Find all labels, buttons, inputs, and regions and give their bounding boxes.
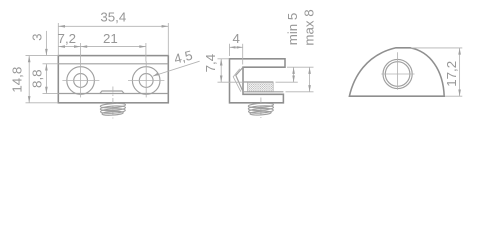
- svg-text:min 5: min 5: [285, 13, 300, 46]
- dim 8,8 line: [45, 64, 47, 94]
- dim 35,4 extension lines: [57, 23, 59, 56]
- dim 4 extension lines: [229, 44, 231, 56]
- dim 35,4 line: [58, 25, 168, 27]
- svg-text:8,8: 8,8: [29, 69, 44, 88]
- screw threads: [100, 103, 125, 116]
- hole 2 outer circle: [132, 67, 160, 95]
- svg-text:7,2: 7,2: [58, 31, 77, 46]
- C-body outline: [230, 59, 286, 103]
- inner bottom step line: [58, 93, 168, 95]
- rubber pad dotted: [248, 82, 274, 92]
- screw axis centerline: [112, 87, 114, 119]
- hole 1 outer circle: [67, 67, 95, 95]
- svg-text:3: 3: [30, 33, 45, 40]
- svg-text:35,4: 35,4: [100, 9, 126, 24]
- hole 2 crosshair: [128, 80, 164, 82]
- dim min5 line: [293, 67, 295, 82]
- screw axis centerline: [260, 98, 262, 119]
- dim 14,8 line: [28, 56, 30, 103]
- hole 2 inner circle: [139, 74, 153, 88]
- right extension lines: [287, 66, 314, 68]
- dim 4,5 leader: [153, 61, 200, 76]
- dim 17,2 line: [459, 48, 461, 96]
- dome outline: [349, 48, 444, 96]
- pad trapezoid front: [100, 91, 124, 94]
- dim 7,4 line: [220, 59, 222, 82]
- left side extension lines: [26, 55, 59, 57]
- dim max8 line: [309, 67, 311, 92]
- inner top step line: [58, 63, 168, 65]
- pad bottom / jaw line: [243, 91, 283, 93]
- dim 7,4 extension lines: [218, 58, 230, 60]
- svg-text:7,4: 7,4: [203, 54, 218, 73]
- dim 7,2 / 21 line: [58, 46, 146, 48]
- body rectangle: [58, 56, 168, 103]
- ring crosshair: [381, 73, 414, 75]
- screw threads: [248, 103, 273, 116]
- ring outer: [383, 59, 412, 88]
- svg-text:21: 21: [103, 31, 118, 46]
- dim 17,2 extension lines: [411, 47, 462, 49]
- svg-text:17,2: 17,2: [444, 61, 459, 87]
- svg-text:max 8: max 8: [301, 9, 316, 45]
- hole 1 crosshair: [62, 80, 99, 82]
- dim 4 line: [230, 46, 243, 48]
- dim 3 line: [45, 31, 47, 55]
- dim 7,2 / 21 extension lines: [80, 43, 82, 62]
- countersink wedge inner: [233, 69, 241, 92]
- hole 1 inner circle: [74, 74, 88, 88]
- svg-text:14,8: 14,8: [10, 67, 25, 93]
- pad top line: [243, 81, 273, 83]
- ring inner: [385, 62, 410, 87]
- countersink wedge outer: [236, 67, 243, 91]
- svg-text:4: 4: [232, 31, 239, 46]
